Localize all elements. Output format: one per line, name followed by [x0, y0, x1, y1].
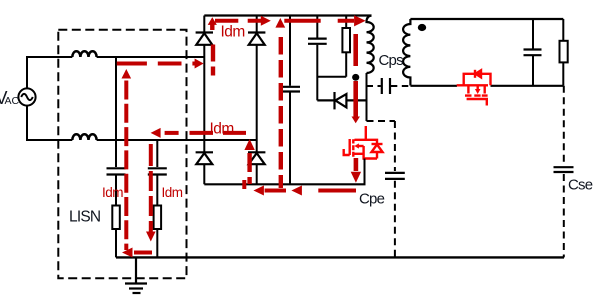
transistor Q1 mosfet [344, 126, 383, 159]
current path dm bottom to ground [134, 251, 152, 255]
current path up through D4 [247, 153, 251, 184]
capacitor Csn snubber [308, 16, 327, 101]
diode D3 [196, 152, 213, 164]
wire Cpe dashed [367, 121, 395, 257]
diode D1 [196, 33, 213, 45]
inductor top line [72, 51, 96, 57]
current path dm mid return [165, 131, 246, 135]
wire bridge leg 1 [203, 16, 205, 185]
current path down through Q1 [353, 34, 358, 171]
transistor Q2 sync rectifier [457, 70, 491, 106]
capacitor LISN C2 [148, 168, 167, 174]
current path dm down lisn right [149, 144, 153, 232]
current path up at bus cap [279, 37, 283, 188]
current path dm up lisn left [124, 81, 128, 251]
svg-text:Idm: Idm [210, 121, 234, 138]
resistor Rload [560, 19, 568, 86]
capacitor LISN C1 [107, 168, 126, 174]
node primary polarity dot [352, 74, 359, 81]
svg-text:Idm: Idm [102, 185, 123, 200]
current path along dc plus rail [215, 19, 354, 23]
capacitor Cout [524, 19, 542, 86]
wire DC minus rail [204, 183, 365, 185]
ground [125, 257, 147, 293]
capacitor Cse [554, 167, 574, 172]
wire AC line bottom [27, 106, 257, 140]
transformer T1 primary winding [367, 16, 374, 74]
LISN box [58, 30, 186, 278]
svg-text:AC: AC [5, 95, 20, 107]
capacitor Cpe [385, 173, 405, 179]
wire snubber junction [317, 76, 346, 78]
wire primary to drain [366, 73, 368, 121]
wire Q1 source [364, 159, 366, 185]
transformer T1 secondary winding [403, 19, 410, 86]
wire LISN branch 2 [156, 140, 158, 258]
wire secondary top rail [410, 18, 563, 20]
source VAC [18, 88, 35, 105]
capacitor Cps [382, 78, 390, 94]
wire earth rail [116, 256, 564, 258]
resistor Rsn snubber [342, 16, 350, 77]
diode D4 [248, 152, 265, 164]
wire bridge leg 2 [256, 16, 258, 185]
wire AC line top [27, 57, 204, 88]
wire LISN branch 1 [115, 57, 117, 257]
svg-text:Idm: Idm [162, 185, 183, 200]
node secondary polarity dot [418, 24, 426, 31]
label VAC [0, 88, 20, 108]
diode Dsn snubber [317, 92, 365, 109]
wire secondary bottom rail [410, 85, 563, 87]
current path dm top into bridge [117, 62, 197, 66]
inductor bottom line [72, 134, 96, 140]
current path along dc minus rail [244, 180, 356, 191]
svg-text:Cpe: Cpe [359, 191, 385, 208]
resistor LISN R1 [112, 206, 120, 230]
current path up through D1 [210, 25, 215, 76]
resistor LISN R2 [154, 206, 162, 230]
svg-text:Cps: Cps [379, 52, 404, 69]
wire Cps dashed [367, 85, 411, 87]
wire DC plus rail [204, 14, 371, 16]
svg-text:Idm: Idm [221, 23, 245, 40]
wire Cse dashed [563, 86, 565, 258]
diode D2 [248, 33, 265, 45]
svg-text:LISN: LISN [69, 208, 100, 225]
capacitor Cbus [280, 16, 300, 185]
svg-text:Cse: Cse [568, 177, 593, 194]
